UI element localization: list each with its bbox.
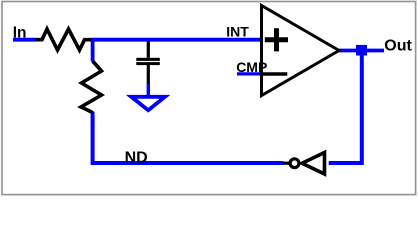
svg-text:INT: INT: [226, 24, 249, 40]
svg-text:In: In: [13, 24, 27, 41]
svg-text:ND: ND: [125, 149, 148, 166]
svg-text:Out: Out: [384, 38, 412, 55]
svg-text:CMP: CMP: [236, 59, 267, 75]
